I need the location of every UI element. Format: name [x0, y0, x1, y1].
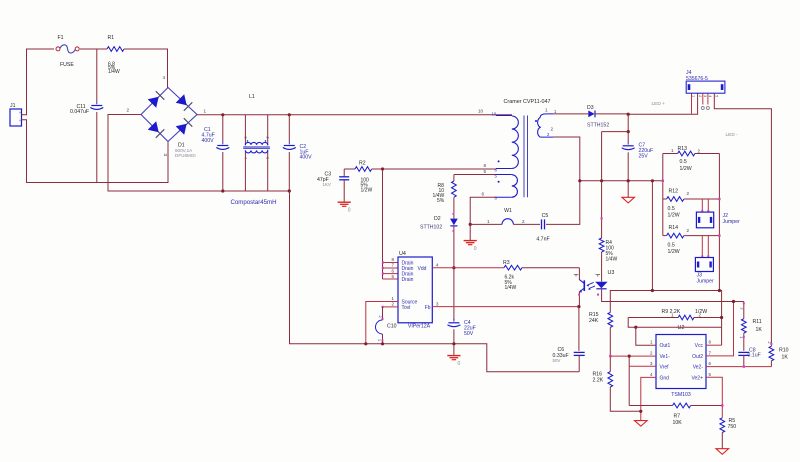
svg-text:1: 1	[650, 340, 653, 345]
svg-text:C10: C10	[387, 324, 397, 330]
svg-text:1/2W: 1/2W	[668, 249, 680, 255]
wire C3 top	[343, 169, 345, 177]
svg-text:R3: R3	[503, 260, 510, 266]
op-amp U4 VIPer12A	[392, 251, 439, 323]
svg-text:1/2W: 1/2W	[680, 166, 692, 172]
svg-text:4: 4	[708, 95, 712, 97]
junction C7 return	[627, 180, 630, 183]
wire left bus R13-R14	[662, 154, 664, 236]
wire C10 top	[382, 307, 384, 320]
svg-text:2: 2	[699, 313, 702, 318]
wire secondary return line	[580, 180, 663, 182]
capacitor C10	[376, 316, 397, 342]
pin marker U4 pin6	[382, 273, 384, 275]
wire L1 right leg top	[267, 115, 269, 143]
svg-text:1: 1	[671, 313, 674, 318]
diode D3 STTH152	[587, 105, 609, 129]
svg-text:1/2W: 1/2W	[361, 188, 373, 194]
wire C1 vertical top	[222, 115, 224, 142]
wire R7 line	[629, 405, 672, 407]
ground C4	[447, 356, 460, 367]
resistor R3	[503, 260, 522, 291]
svg-text:10: 10	[478, 109, 484, 114]
wire J4 pin5 LED- down right edge	[714, 93, 771, 346]
pin marker U4 pin7	[382, 267, 384, 269]
svg-text:Jumper: Jumper	[723, 219, 741, 225]
junction gnd line	[639, 410, 642, 413]
bridge rectifier D1	[141, 88, 197, 159]
svg-text:1: 1	[554, 109, 557, 114]
svg-text:1/4W: 1/4W	[108, 69, 120, 75]
wire LED to B-line	[602, 289, 744, 302]
pin markers J2	[701, 210, 709, 212]
junction R12 bus	[718, 198, 720, 200]
wire to U2 pin1	[636, 327, 656, 345]
wire R9 staircase	[628, 318, 721, 328]
svg-text:0: 0	[348, 208, 351, 214]
wire J4 pin4 stub	[707, 93, 709, 104]
wire R4 vertical	[601, 132, 603, 238]
junction staircase pin1	[634, 326, 637, 329]
junction A-line return	[651, 289, 654, 292]
svg-text:1: 1	[204, 109, 207, 114]
pin label 10 blue	[492, 112, 497, 117]
wire U2 pin2 line	[610, 355, 656, 357]
svg-text:535676-5: 535676-5	[686, 76, 708, 82]
junction source rail pin1	[364, 342, 367, 345]
svg-text:2: 2	[698, 149, 701, 154]
svg-text:2: 2	[127, 108, 130, 113]
wire C5 to secondary return	[546, 137, 580, 224]
svg-text:1: 1	[377, 339, 381, 341]
wire J1 pin1 to bottom rail	[22, 120, 169, 183]
label LED plus	[652, 101, 666, 107]
wire C8 bottom	[743, 355, 745, 366]
svg-text:U4: U4	[399, 251, 406, 257]
svg-text:3: 3	[436, 302, 439, 307]
wire C7 top	[627, 114, 629, 142]
wire C2 vertical bottom	[288, 152, 290, 191]
svg-text:5: 5	[709, 372, 712, 377]
wire L1 left leg top	[244, 115, 246, 143]
wire R11 top	[743, 302, 745, 319]
capacitor C7	[622, 142, 654, 160]
wire J4 pin1 stub	[691, 93, 693, 114]
wire C1 vertical bottom	[222, 152, 224, 191]
wire U4 pin8 stub	[383, 262, 399, 264]
wire R10 bottom	[770, 361, 772, 367]
svg-text:0.5: 0.5	[680, 159, 687, 165]
ground C7	[622, 197, 635, 203]
svg-text:Fb: Fb	[425, 305, 431, 311]
connector J2 jumper	[696, 212, 740, 228]
junction Ve1- node	[609, 355, 611, 357]
wire J2 pin stubs	[702, 199, 708, 212]
inductor L1 common-mode choke	[243, 94, 270, 159]
pin marker R4 top	[601, 217, 603, 219]
wire U2 pin7 to B-line	[706, 302, 734, 356]
wire J1 pin2 to top rail	[22, 49, 55, 115]
node pin 1 label	[204, 109, 207, 114]
svg-text:Gnd: Gnd	[660, 375, 670, 381]
svg-text:2: 2	[378, 316, 382, 318]
wire output branch to R4	[602, 131, 629, 133]
svg-text:Ve2+: Ve2+	[691, 375, 703, 381]
node pin 4 label	[163, 75, 166, 80]
svg-text:L1: L1	[249, 94, 255, 100]
svg-text:1/2W: 1/2W	[695, 309, 707, 315]
fuse F1	[56, 35, 79, 68]
polarity dot aux	[498, 181, 500, 183]
svg-text:4: 4	[436, 263, 439, 268]
wire W1 to C5	[513, 223, 540, 225]
svg-text:LED -: LED -	[726, 132, 739, 138]
pin marker C10 bottom	[382, 340, 384, 342]
pin label sec1 blue	[554, 109, 557, 114]
svg-text:4: 4	[650, 372, 653, 377]
pin marker U4 pin8	[382, 261, 384, 263]
junction C7 branch	[627, 130, 630, 133]
connector J3 jumper	[695, 258, 714, 285]
junction return R4	[600, 179, 603, 182]
transformer primary winding	[496, 116, 518, 169]
wire Vref staircase	[628, 356, 630, 405]
connector J1	[10, 103, 23, 126]
svg-text:0.1uF: 0.1uF	[748, 353, 761, 359]
svg-text:1: 1	[487, 219, 490, 224]
wire R5 bottom	[721, 433, 723, 449]
svg-text:3: 3	[163, 154, 168, 157]
junction C2 top	[288, 113, 291, 116]
pin label 8 black	[484, 163, 487, 168]
node pin 3 label	[163, 154, 168, 157]
ground C3	[338, 202, 351, 213]
pin marker R11 top	[743, 302, 745, 304]
svg-text:R1: R1	[108, 35, 115, 41]
pin label sec2 blue	[547, 132, 550, 137]
wire U4 pin1 source loop	[366, 302, 398, 344]
wire U2 pin4 gnd	[641, 377, 656, 420]
wire R3 left	[432, 267, 504, 269]
pin label 8 blue	[495, 168, 498, 173]
wire U4 pin7 stub	[383, 267, 399, 269]
wire U2 pin5	[706, 377, 722, 418]
pin marker D2 anode	[453, 213, 455, 215]
ground aux	[464, 241, 477, 252]
svg-text:5: 5	[715, 95, 719, 97]
capacitor C4	[447, 319, 475, 337]
resistor R14	[667, 225, 690, 255]
junction return A-branch	[651, 179, 654, 182]
capacitor C2	[283, 142, 312, 161]
svg-text:2: 2	[687, 228, 690, 233]
svg-text:24K: 24K	[589, 318, 599, 324]
wire opto collector	[578, 268, 580, 280]
pin marker LED cathode	[597, 294, 599, 296]
svg-text:R11: R11	[753, 319, 762, 325]
capacitor C11	[70, 102, 103, 115]
wire R14 left	[663, 235, 667, 237]
wire C7 bottom	[627, 152, 629, 197]
transformer secondary winding	[538, 114, 553, 137]
junction return C7	[627, 179, 630, 182]
wire J4 pin3 stub	[702, 93, 704, 104]
resistor R5	[720, 418, 736, 433]
wire R9 left	[628, 317, 678, 319]
junction B-line pin7	[732, 300, 735, 303]
label L1 value	[230, 199, 276, 206]
diode D2 STTH102	[420, 216, 458, 231]
svg-text:0.047uF: 0.047uF	[70, 109, 89, 115]
svg-text:1/4W: 1/4W	[505, 285, 517, 291]
svg-text:R10: R10	[779, 348, 789, 354]
transformer auxiliary winding	[496, 175, 517, 198]
resistor R16	[593, 372, 613, 388]
svg-text:VIPer12A: VIPer12A	[408, 323, 431, 329]
junction C1 bottom	[221, 189, 224, 192]
wire L1 left leg bottom	[244, 152, 246, 191]
svg-text:1/4W: 1/4W	[606, 257, 618, 263]
svg-text:Vdd: Vdd	[418, 266, 427, 272]
resistor R13	[671, 146, 701, 172]
wire U4 pin2 stub	[383, 306, 399, 308]
svg-text:D3: D3	[587, 105, 594, 111]
pin marker R11 bottom	[743, 336, 745, 338]
pin marker R10 top	[770, 343, 772, 345]
svg-text:2: 2	[687, 191, 690, 196]
resistor R8	[433, 181, 457, 204]
wire R12 left	[663, 198, 667, 200]
svg-text:FUSE: FUSE	[60, 62, 74, 68]
wire Fb to C6	[578, 307, 580, 351]
pin label 10 black	[478, 109, 484, 114]
junction D2 Vdd	[452, 266, 455, 269]
wire C6 bottom	[578, 355, 580, 371]
resistor R4	[599, 238, 617, 263]
svg-text:4.7nF: 4.7nF	[536, 237, 549, 243]
ground R5	[716, 449, 729, 455]
svg-text:Out2: Out2	[692, 354, 703, 360]
svg-text:1KV: 1KV	[323, 182, 331, 187]
wire C11 bottom	[96, 112, 98, 183]
wire L1 right leg bottom	[267, 152, 269, 191]
capacitor C3	[317, 172, 349, 187]
wire opto emitter	[578, 292, 580, 307]
wire R2 left	[344, 168, 355, 170]
svg-text:6: 6	[495, 196, 498, 201]
svg-text:U2: U2	[678, 325, 685, 331]
label LED minus	[726, 132, 739, 138]
junction C4 gnd rail	[452, 342, 455, 345]
wire right bus R13-R14	[718, 154, 720, 291]
wire LED+ rail	[628, 93, 697, 114]
wire R2 to transformer pin 8	[372, 168, 496, 170]
svg-text:0.5: 0.5	[668, 206, 675, 212]
polarity dot secondary	[535, 120, 537, 122]
wire R14 right	[684, 235, 720, 237]
svg-text:8: 8	[709, 340, 712, 345]
opto-transistor U3	[579, 279, 595, 292]
svg-text:2: 2	[740, 308, 744, 310]
junction A-line bus	[718, 289, 721, 292]
wire R8 top to aux pin5	[454, 174, 496, 176]
capacitor C5	[536, 213, 549, 243]
svg-text:C5: C5	[542, 213, 549, 219]
wire U4 pin5 stub	[383, 278, 399, 280]
junction Vref Ve1-	[628, 355, 631, 358]
svg-text:LED +: LED +	[652, 101, 666, 107]
junction R14 bus	[718, 234, 720, 236]
resistor R12	[667, 189, 690, 219]
svg-text:10: 10	[492, 112, 497, 117]
wire R3 to collector	[522, 267, 579, 269]
junction source rail C10	[381, 342, 384, 345]
pin marker U4 pin2	[382, 306, 384, 308]
junction R7 pin5	[721, 404, 723, 406]
svg-text:2: 2	[551, 127, 554, 132]
svg-text:1K: 1K	[782, 355, 789, 361]
svg-text:W1: W1	[504, 208, 512, 214]
svg-text:1/2W: 1/2W	[668, 213, 680, 219]
svg-text:Compostar45mH: Compostar45mH	[230, 199, 276, 206]
svg-text:8: 8	[484, 163, 487, 168]
junction Fb emitter	[577, 305, 580, 308]
label U4 value	[408, 323, 431, 329]
svg-text:7: 7	[709, 351, 712, 356]
pin marker emitter	[578, 294, 580, 296]
junction D3 C7	[627, 113, 630, 116]
svg-text:Cramer CVP11-047: Cramer CVP11-047	[504, 99, 551, 105]
wire R15 to R16	[609, 327, 611, 371]
svg-text:U3: U3	[608, 270, 615, 276]
svg-text:R14: R14	[669, 225, 679, 231]
svg-text:Vcc: Vcc	[695, 343, 704, 349]
pin markers J3	[701, 255, 709, 257]
junction pin6 C8	[743, 365, 745, 367]
svg-text:5: 5	[392, 274, 395, 279]
svg-text:DFU6MGI: DFU6MGI	[175, 153, 196, 158]
wire C2 down to source rail	[290, 191, 580, 372]
wire C3 bottom	[343, 180, 345, 202]
svg-text:Jumper: Jumper	[697, 278, 715, 284]
svg-text:6: 6	[709, 361, 712, 366]
wire bridge pin1 rail	[197, 114, 512, 116]
wire bridge pin2 loop	[108, 115, 289, 192]
svg-text:R7: R7	[674, 414, 681, 420]
svg-text:Out1: Out1	[660, 343, 671, 349]
wire Fb line	[432, 306, 579, 308]
wire U2 pin8 stub	[706, 344, 722, 346]
wire R1 to bridge pin 4	[124, 49, 168, 88]
wire R13 right	[695, 153, 720, 155]
wire D2 to Vdd line	[453, 226, 455, 320]
junction C1 top	[221, 113, 224, 116]
svg-text:2.2K: 2.2K	[593, 378, 604, 384]
capacitor C8	[738, 348, 760, 359]
wire U4 pin6 stub	[383, 273, 399, 275]
pin tick LED anode	[596, 275, 601, 277]
transformer core	[524, 116, 528, 198]
resistor R2	[355, 161, 372, 194]
opto-LED U3	[595, 270, 614, 289]
svg-text:400V: 400V	[202, 138, 215, 144]
wire R13 left	[663, 153, 678, 155]
pin label sec1 black	[545, 108, 548, 113]
svg-text:3: 3	[703, 95, 707, 97]
svg-text:Drain: Drain	[402, 277, 414, 283]
svg-text:R2: R2	[359, 161, 366, 167]
junction return sec	[578, 179, 581, 182]
svg-text:50V: 50V	[553, 358, 561, 363]
svg-text:2: 2	[698, 95, 702, 97]
wire R11 to C8	[743, 333, 745, 351]
wire R12 right	[684, 198, 720, 200]
node pin 2 label	[127, 108, 130, 113]
label U2 value	[671, 392, 691, 398]
svg-text:Ve1-: Ve1-	[660, 354, 671, 360]
svg-text:25V: 25V	[639, 154, 649, 160]
svg-text:1K: 1K	[756, 327, 763, 333]
wire return to A-line	[651, 181, 653, 291]
wire F1 to R1	[80, 48, 107, 50]
wire R8 lead	[453, 175, 455, 182]
junction C2 rail2	[288, 189, 291, 192]
svg-text:1: 1	[671, 148, 674, 153]
resistor R1	[107, 35, 124, 75]
capacitor C6	[553, 347, 585, 363]
wire C4 bottom	[453, 329, 455, 355]
wire secondary pin1 to D3	[553, 113, 588, 115]
wire U2 pin3 stub	[629, 365, 656, 367]
resistor R15	[589, 312, 613, 327]
pin marker D2 cathode	[453, 230, 455, 232]
svg-text:STTH152: STTH152	[587, 123, 609, 129]
junction R9 bus	[720, 316, 723, 319]
svg-text:1: 1	[692, 95, 696, 97]
svg-text:Ve2-: Ve2-	[693, 364, 704, 370]
junction R2 drain bus	[381, 167, 384, 170]
wire R8 to D2	[453, 197, 455, 218]
wire C2 vertical top	[288, 115, 290, 142]
wire C10 bottom	[382, 334, 384, 344]
wire C11 top	[96, 49, 98, 102]
svg-text:50V: 50V	[464, 331, 474, 337]
resistor R11	[739, 308, 762, 339]
pin label 5 black	[484, 169, 487, 174]
svg-text:R13: R13	[678, 146, 688, 152]
no-connect J4 pin3	[701, 107, 704, 110]
no-connect J4 pin4	[706, 107, 709, 110]
svg-text:1: 1	[739, 337, 743, 339]
svg-text:2: 2	[266, 137, 270, 139]
svg-text:4: 4	[163, 75, 166, 80]
svg-text:6: 6	[392, 268, 395, 273]
svg-text:3: 3	[244, 137, 248, 139]
svg-text:2: 2	[19, 112, 23, 114]
svg-text:2: 2	[547, 132, 550, 137]
svg-text:750: 750	[728, 424, 737, 430]
svg-text:0: 0	[474, 246, 477, 252]
pin label 6 black	[482, 192, 485, 197]
svg-text:TSM103: TSM103	[671, 392, 691, 398]
pin label 6 blue	[495, 196, 498, 201]
jumper W1	[487, 208, 525, 224]
junction return left bus	[662, 180, 664, 182]
resistor R10	[767, 342, 789, 361]
svg-text:5%: 5%	[437, 198, 445, 204]
svg-text:8: 8	[392, 257, 395, 262]
svg-text:7: 7	[392, 263, 395, 268]
